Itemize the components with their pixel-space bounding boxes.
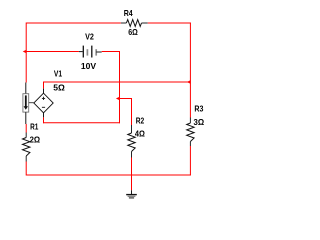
wire left vertical (bottom red segment) [25,162,27,176]
wire right vertical bottom red [189,146,191,176]
ground [126,195,137,198]
resistor R1 [23,133,30,162]
wire top horizontal (left of R4) [26,22,121,24]
wire bottom horizontal [26,174,191,176]
dependent source V1 diamond [34,93,53,113]
wire left vertical (top red segment) [25,23,27,83]
wire R2 branch horizontal [120,98,132,100]
svg-text:3Ω: 3Ω [194,117,205,127]
lead V1 top [43,89,45,94]
wire V1 top stub [43,82,45,89]
junction at left wire / battery wire [23,50,27,54]
svg-text:R1: R1 [30,122,39,132]
wire top horizontal (right of R4) [148,22,191,24]
junction at right wire / V1 top wire [187,80,191,84]
resistor R2 [128,125,135,158]
lead sensor top [25,83,27,94]
wire left vertical (mid red segment) [25,124,27,133]
lead sensor bottom [25,112,27,124]
resistor R3 [187,118,194,147]
wire right vertical top red [189,23,191,118]
wire battery row left [26,51,79,53]
svg-text:R4: R4 [124,8,133,18]
svg-text:10V: 10V [81,61,97,71]
wire vertical battery drop [119,51,121,123]
lead V1 bottom [43,113,45,118]
wire V1 top horizontal [43,81,190,83]
wire R2 vertical top red [131,98,133,125]
svg-text:R3: R3 [194,104,203,114]
sensor to diamond stub [29,102,34,104]
wire R2 vertical bottom red [131,158,133,191]
wire V1 bottom horizontal [43,122,120,124]
lead ground [131,190,133,194]
resistor R4 [121,20,148,27]
svg-text:2Ω: 2Ω [30,135,41,145]
wire battery row right [102,51,120,53]
svg-text:6Ω: 6Ω [128,27,138,37]
wire V1 bottom stub [43,117,45,123]
junction on battery drop at R2 branch [116,97,120,101]
svg-text:V2: V2 [85,32,94,42]
svg-text:5Ω: 5Ω [53,83,65,93]
battery V2 [79,46,102,58]
svg-text:V1: V1 [54,69,62,79]
svg-text:4Ω: 4Ω [135,129,145,139]
svg-text:R2: R2 [136,116,145,126]
current sensor of CCVS [23,94,29,112]
